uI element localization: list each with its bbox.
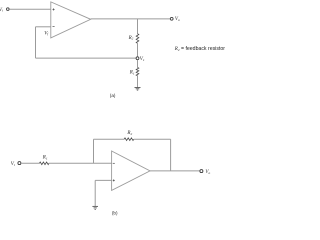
wire Vi to R1 (b) [21, 162, 39, 164]
svg-text:Vo: Vo [175, 17, 180, 22]
terminal Vi (b) [18, 162, 21, 165]
node Vo (b) output label [205, 170, 210, 175]
wire feedback vertical right (b) [170, 139, 172, 171]
terminal Vo (a) [170, 17, 173, 20]
wire feedback horizontal to node V1 (a) [36, 57, 137, 59]
ground (a) [135, 88, 141, 91]
svg-text:R2: R2 [128, 36, 134, 41]
node V1 (a) [136, 57, 139, 60]
resistor R2 (a) [136, 34, 139, 44]
wire output of U2 (b) [150, 170, 200, 172]
resistor R2 (b) [124, 138, 134, 141]
pin - of U2 [113, 162, 115, 164]
svg-text:Vo: Vo [205, 170, 210, 175]
svg-text:R1: R1 [42, 156, 48, 161]
svg-text:(b): (b) [112, 211, 118, 216]
wire + input to ground corner (b) [95, 179, 111, 181]
svg-text:V1: V1 [140, 57, 145, 62]
op-amp U1 [51, 2, 91, 38]
wire R2 to node V1 (a) [137, 43, 139, 56]
label V1 (a) [140, 57, 145, 62]
wire node V1 to R1 (a) [137, 60, 139, 68]
svg-text:R1: R1 [129, 71, 135, 76]
terminal Vi (a) [7, 8, 10, 11]
caption (b) [112, 211, 118, 216]
label R2 (b) [126, 131, 132, 136]
wire ground stem (b) [94, 180, 96, 206]
pin - of U1 [53, 26, 55, 28]
wire - input to feedback corner (a) [36, 26, 51, 28]
op-amp U2 [112, 151, 150, 190]
label R1 (a) [129, 71, 135, 76]
svg-text:Vi: Vi [11, 162, 15, 167]
wire output of U1 (a) [91, 18, 171, 20]
node Vo (a) output label [175, 17, 180, 22]
junction R2 tap on output wire (a) [137, 19, 139, 34]
pin + of U1 [53, 8, 55, 10]
pin + of U2 [113, 179, 115, 181]
caption (a) [110, 93, 116, 98]
svg-text:R2 = feedback resistor: R2 = feedback resistor [174, 46, 225, 52]
wire feedback vertical left (b) [93, 139, 95, 163]
wire R1 to ground (a) [137, 76, 139, 88]
label R1 (b) [42, 156, 48, 161]
node Vi (a) input label [0, 8, 3, 13]
label R2 (a) [128, 36, 134, 41]
resistor R1 (b) [39, 162, 49, 165]
resistor R1 (a) [136, 67, 139, 75]
terminal Vo (b) [200, 170, 203, 173]
wire Vi to + input (a) [9, 8, 51, 10]
ground (b) [92, 206, 98, 209]
svg-text:Vi: Vi [0, 8, 3, 13]
svg-text:R2: R2 [126, 131, 132, 136]
node Vf label at inverting input (a) [44, 31, 49, 36]
svg-text:(a): (a) [110, 93, 116, 98]
wire R1 to - input (b) [49, 162, 112, 164]
node Vi (b) input label [11, 162, 15, 167]
wire feedback rail left segment (b) [94, 138, 125, 140]
wire feedback rail right segment (b) [134, 138, 171, 140]
wire feedback vertical left (a) [35, 27, 37, 58]
note R2 = feedback resistor [174, 46, 225, 52]
